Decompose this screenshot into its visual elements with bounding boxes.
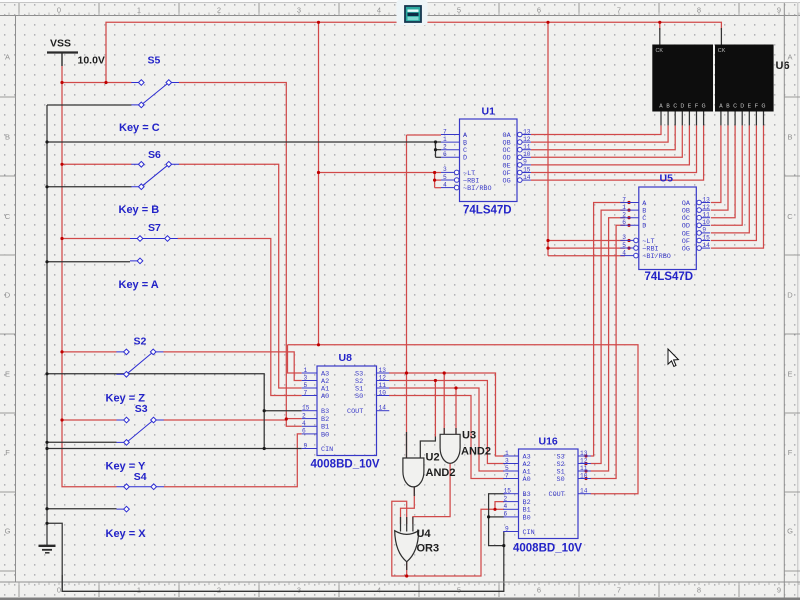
svg-text:~BI/RBO: ~BI/RBO	[642, 253, 671, 261]
svg-text:B: B	[787, 133, 792, 142]
svg-text:6: 6	[622, 219, 626, 226]
svg-text:14: 14	[580, 488, 588, 495]
svg-text:3: 3	[505, 457, 509, 464]
svg-text:4008BD_10V: 4008BD_10V	[513, 543, 582, 555]
svg-text:A: A	[659, 104, 663, 110]
svg-text:CK: CK	[718, 48, 726, 54]
svg-text:VSS: VSS	[50, 37, 71, 49]
svg-text:7: 7	[617, 5, 621, 14]
svg-text:S0: S0	[355, 393, 363, 401]
svg-text:~BI/RBO: ~BI/RBO	[463, 185, 492, 193]
svg-text:1: 1	[443, 136, 447, 143]
svg-text:9: 9	[702, 227, 706, 234]
svg-text:5: 5	[443, 174, 447, 181]
svg-text:COUT: COUT	[549, 491, 565, 499]
svg-text:E: E	[5, 370, 10, 379]
svg-text:C: C	[733, 104, 737, 110]
svg-text:OG: OG	[682, 246, 690, 254]
svg-text:4: 4	[302, 420, 306, 427]
svg-text:11: 11	[523, 144, 531, 151]
svg-text:1: 1	[137, 586, 141, 595]
svg-text:F: F	[755, 104, 758, 110]
svg-text:10: 10	[702, 219, 710, 226]
svg-text:A: A	[787, 53, 792, 62]
svg-text:5: 5	[304, 382, 308, 389]
svg-text:7: 7	[443, 128, 447, 135]
svg-text:C: C	[5, 212, 11, 221]
svg-text:F: F	[5, 448, 10, 457]
svg-text:Key = C: Key = C	[119, 122, 160, 134]
svg-text:A0: A0	[523, 476, 531, 484]
svg-text:D: D	[740, 104, 744, 110]
svg-text:2: 2	[302, 412, 306, 419]
svg-text:4: 4	[377, 586, 381, 595]
svg-text:D: D	[5, 291, 11, 300]
svg-text:CIN: CIN	[321, 446, 333, 454]
svg-text:3: 3	[443, 166, 447, 173]
svg-text:B: B	[666, 104, 670, 110]
svg-text:COUT: COUT	[347, 408, 363, 416]
svg-text:AND2: AND2	[426, 467, 456, 479]
svg-text:3: 3	[297, 5, 301, 14]
svg-text:A: A	[719, 104, 723, 110]
svg-text:10: 10	[379, 389, 387, 396]
svg-text:4: 4	[377, 5, 381, 14]
svg-text:G: G	[762, 104, 766, 110]
svg-text:0: 0	[57, 5, 61, 14]
svg-text:9: 9	[304, 442, 308, 449]
svg-text:G: G	[702, 104, 706, 110]
svg-text:E: E	[748, 104, 752, 110]
svg-text:1: 1	[137, 5, 141, 14]
svg-text:S4: S4	[134, 471, 147, 483]
svg-text:7: 7	[622, 196, 626, 203]
svg-text:C: C	[787, 212, 793, 221]
svg-text:D: D	[463, 155, 467, 163]
svg-text:13: 13	[379, 367, 387, 374]
svg-text:U8: U8	[339, 352, 353, 364]
svg-text:6: 6	[302, 428, 306, 435]
svg-text:CIN: CIN	[523, 529, 535, 537]
svg-text:10: 10	[523, 151, 531, 158]
svg-text:14: 14	[523, 174, 531, 181]
svg-text:74LS47D: 74LS47D	[463, 205, 512, 217]
svg-text:3: 3	[304, 374, 308, 381]
svg-text:15: 15	[702, 234, 710, 241]
svg-text:G: G	[787, 527, 793, 536]
svg-text:B0: B0	[321, 431, 329, 439]
svg-text:10: 10	[580, 472, 588, 479]
svg-text:6: 6	[504, 511, 508, 518]
svg-text:7: 7	[304, 389, 308, 396]
svg-text:12: 12	[580, 457, 588, 464]
svg-text:2: 2	[622, 212, 626, 219]
svg-text:4: 4	[443, 181, 447, 188]
svg-text:3: 3	[297, 586, 301, 595]
svg-text:S5: S5	[148, 55, 161, 67]
svg-text:4: 4	[504, 503, 508, 510]
svg-text:AND2: AND2	[461, 446, 491, 458]
svg-text:6: 6	[537, 586, 541, 595]
svg-text:U2: U2	[426, 452, 440, 464]
svg-text:5: 5	[622, 242, 626, 249]
svg-text:E: E	[787, 370, 792, 379]
svg-text:U5: U5	[660, 173, 674, 185]
svg-text:0: 0	[57, 586, 61, 595]
svg-text:9: 9	[523, 159, 527, 166]
svg-text:A: A	[5, 53, 10, 62]
svg-text:Key = Z: Key = Z	[106, 393, 146, 405]
svg-text:S6: S6	[148, 149, 161, 161]
svg-text:12: 12	[702, 204, 710, 211]
svg-text:B: B	[726, 104, 730, 110]
svg-text:8: 8	[697, 5, 701, 14]
svg-text:D: D	[680, 104, 684, 110]
svg-text:OG: OG	[503, 178, 511, 186]
svg-text:3: 3	[622, 234, 626, 241]
svg-text:13: 13	[580, 450, 588, 457]
svg-text:8: 8	[697, 586, 701, 595]
svg-text:14: 14	[379, 405, 387, 412]
svg-text:15: 15	[504, 488, 512, 495]
svg-text:10.0V: 10.0V	[78, 54, 105, 66]
svg-text:D: D	[642, 223, 646, 231]
svg-text:Key = Y: Key = Y	[106, 461, 147, 473]
svg-text:Key = A: Key = A	[119, 279, 159, 291]
svg-text:F: F	[695, 104, 698, 110]
svg-text:14: 14	[702, 242, 710, 249]
svg-text:9: 9	[777, 586, 781, 595]
svg-text:11: 11	[580, 465, 588, 472]
svg-text:B3: B3	[523, 491, 531, 499]
svg-text:6: 6	[537, 5, 541, 14]
svg-text:Key = B: Key = B	[119, 204, 160, 216]
svg-text:9: 9	[505, 525, 509, 532]
svg-text:U6: U6	[776, 60, 790, 72]
svg-text:U1: U1	[482, 106, 496, 118]
svg-text:6: 6	[443, 151, 447, 158]
svg-text:F: F	[788, 448, 793, 457]
svg-text:E: E	[688, 104, 692, 110]
svg-text:B: B	[5, 133, 10, 142]
svg-text:13: 13	[523, 128, 531, 135]
svg-text:1: 1	[622, 204, 626, 211]
svg-text:13: 13	[702, 196, 710, 203]
svg-text:5: 5	[505, 465, 509, 472]
svg-text:B3: B3	[321, 408, 329, 416]
svg-text:2: 2	[217, 5, 221, 14]
svg-text:74LS47D: 74LS47D	[645, 271, 694, 283]
svg-text:2: 2	[217, 586, 221, 595]
svg-text:S3: S3	[135, 403, 148, 415]
svg-text:CK: CK	[656, 48, 664, 54]
svg-text:9: 9	[777, 5, 781, 14]
svg-text:11: 11	[702, 212, 710, 219]
svg-text:7: 7	[617, 586, 621, 595]
svg-text:2: 2	[504, 495, 508, 502]
svg-text:2: 2	[443, 144, 447, 151]
svg-text:12: 12	[379, 374, 387, 381]
svg-text:U16: U16	[539, 436, 558, 448]
svg-text:1: 1	[505, 450, 509, 457]
svg-text:15: 15	[302, 405, 310, 412]
svg-text:S2: S2	[134, 336, 147, 348]
svg-text:G: G	[5, 527, 11, 536]
svg-text:A0: A0	[321, 393, 329, 401]
svg-text:5: 5	[457, 586, 461, 595]
svg-text:U3: U3	[462, 430, 476, 442]
svg-text:B0: B0	[523, 514, 531, 522]
svg-text:S7: S7	[148, 222, 161, 234]
svg-text:S0: S0	[557, 476, 565, 484]
svg-text:12: 12	[523, 136, 531, 143]
svg-text:C: C	[673, 104, 677, 110]
svg-text:Key = X: Key = X	[106, 528, 147, 540]
svg-text:D: D	[787, 291, 793, 300]
svg-text:4: 4	[622, 249, 626, 256]
svg-text:5: 5	[457, 5, 461, 14]
svg-text:U4: U4	[417, 528, 432, 540]
svg-text:15: 15	[523, 166, 531, 173]
svg-text:OR3: OR3	[417, 543, 440, 555]
svg-text:11: 11	[379, 382, 387, 389]
svg-text:4008BD_10V: 4008BD_10V	[311, 459, 380, 471]
svg-text:7: 7	[505, 472, 509, 479]
svg-text:1: 1	[304, 367, 308, 374]
